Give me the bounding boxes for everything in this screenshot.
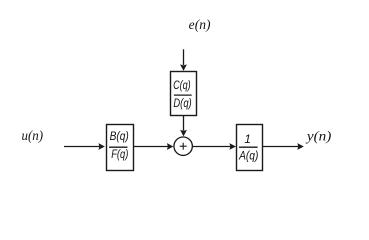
fraction bar C/D [174,94,192,96]
wire C/D box down to summer [183,116,185,131]
svg-text:B(q): B(q) [110,129,129,143]
block C(q)/D(q) [171,72,197,116]
fraction bar B/F [109,146,127,148]
svg-text:C(q): C(q) [173,78,191,92]
svg-text:e(n): e(n) [189,17,211,32]
summer circle [174,137,192,155]
block 1/A(q) [237,125,263,171]
svg-text:F(q): F(q) [111,147,128,161]
wire B/F box to summer [134,146,168,148]
summer plus sign [180,143,187,150]
arrowhead into C/D box top [180,64,187,71]
arrowhead into summer top [180,130,187,137]
fraction bar 1/A [239,146,258,148]
arrowhead into 1/A box [229,143,236,150]
svg-text:y(n): y(n) [305,129,332,144]
wire e(n) down to C/D box [183,49,185,65]
wire u(n) input [64,146,100,148]
wire 1/A box to y(n) output [263,146,299,148]
wire summer to 1/A box [193,146,231,148]
svg-text:1: 1 [244,132,251,146]
svg-text:A(q): A(q) [238,148,258,162]
arrowhead into summer left [167,143,174,150]
svg-text:D(q): D(q) [173,96,191,110]
block B(q)/F(q) [107,125,134,171]
arrowhead into B/F box [98,143,105,150]
arrowhead at y(n) output [297,143,304,150]
svg-text:u(n): u(n) [22,128,44,143]
